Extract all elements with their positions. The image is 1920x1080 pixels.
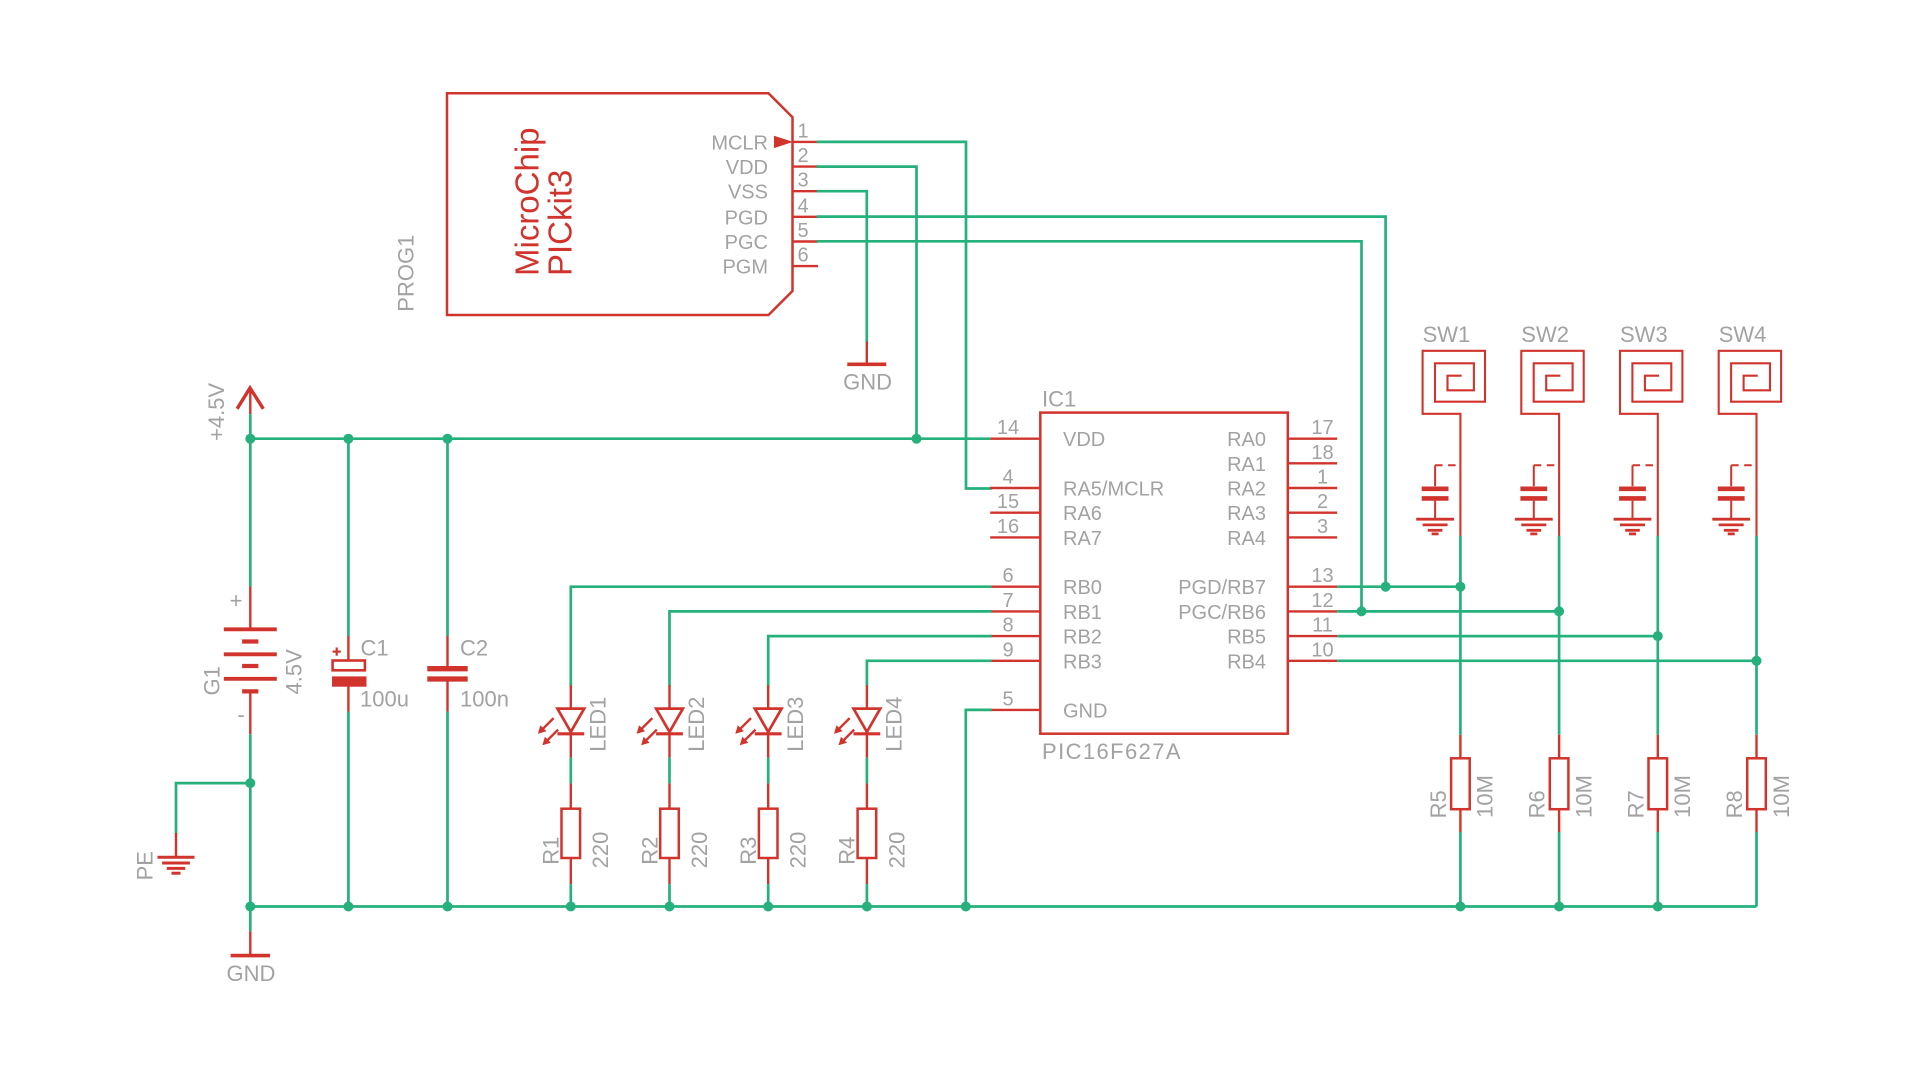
svg-text:8: 8: [1002, 615, 1013, 637]
wire R1 to bus: [569, 884, 572, 906]
resistor R3 220: [767, 783, 769, 808]
LED LED1: [570, 685, 572, 709]
capacitor C1 100u polarized: [347, 636, 349, 660]
pin 10 RB4 of IC1: [1288, 660, 1337, 662]
svg-text:R5: R5: [1426, 790, 1451, 818]
wire PGD net: PROG1 pin4 to RB7 column: [818, 217, 1386, 587]
IC U1 PIC16F627A body: [1040, 413, 1288, 734]
svg-text:RB3: RB3: [1063, 651, 1102, 673]
pin 17 RA0 of IC1: [1288, 438, 1337, 440]
connector PROG1 outline (PICkit3 box): [447, 93, 793, 315]
svg-text:220: 220: [687, 832, 712, 869]
svg-text:6: 6: [1002, 565, 1013, 587]
wire R6 to bus: [1558, 832, 1561, 907]
svg-text:13: 13: [1311, 565, 1333, 587]
svg-text:12: 12: [1311, 590, 1333, 612]
resistor R7 10M: [1657, 735, 1659, 759]
ground GND below PROG1: [866, 342, 868, 365]
svg-text:LED1: LED1: [586, 697, 611, 752]
svg-text:100u: 100u: [360, 687, 409, 712]
switch SW1 touch spiral: [1423, 351, 1485, 536]
pin 4 PGD of PROG1: [793, 216, 819, 218]
pin 5 PGC of PROG1: [793, 240, 819, 242]
wire LED1 cathode to R1: [569, 758, 572, 784]
switch SW2 touch spiral: [1521, 351, 1583, 536]
wire R4 to bus: [866, 884, 869, 906]
sense capacitor of SW2: [1534, 464, 1559, 466]
pin 1 RA2 of IC1: [1288, 487, 1337, 489]
ground GND below battery: [249, 931, 251, 955]
resistor R1 220: [570, 783, 572, 808]
ground of SW4 sense capacitor: [1712, 518, 1750, 521]
junction +4.5V rail at battery column: [245, 434, 255, 444]
pin 16 RA7 of IC1: [990, 536, 1040, 538]
junction bus at R5: [1455, 902, 1465, 912]
junction bus at battery column: [245, 902, 255, 912]
svg-text:10M: 10M: [1670, 775, 1695, 818]
svg-text:R8: R8: [1722, 790, 1747, 818]
svg-text:RA3: RA3: [1227, 503, 1266, 525]
wire C1 top: [347, 439, 350, 636]
svg-text:100n: 100n: [460, 687, 509, 712]
svg-text:R2: R2: [637, 837, 662, 865]
junction SW3 column at IC row: [1653, 631, 1663, 641]
ground of SW2 sense capacitor: [1515, 518, 1553, 521]
pin 18 RA1 of IC1: [1288, 462, 1337, 464]
svg-text:220: 220: [588, 832, 613, 869]
emission arrows of LED2: [640, 718, 653, 731]
pin 14 VDD of IC1: [990, 438, 1040, 440]
resistor R6 10M: [1558, 735, 1560, 759]
junction PGD at pin13 row: [1381, 582, 1391, 592]
ground PE (earth): [175, 833, 177, 857]
wire RB3 from IC1 to LED4: [867, 661, 990, 686]
svg-text:RA5/MCLR: RA5/MCLR: [1063, 479, 1164, 501]
svg-text:LED3: LED3: [783, 697, 808, 752]
svg-text:10M: 10M: [1473, 775, 1498, 818]
emission arrows of LED3: [738, 718, 751, 731]
wire IC row to SW4 column: [1337, 659, 1756, 662]
svg-text:9: 9: [1002, 639, 1013, 661]
svg-text:SW4: SW4: [1719, 322, 1767, 347]
pin 12 PGC/RB6 of IC1: [1288, 610, 1337, 612]
svg-text:17: 17: [1311, 417, 1333, 439]
wire C1 bottom to bus: [347, 712, 350, 907]
sense capacitor of SW3: [1633, 464, 1658, 466]
wire PE branch: [176, 783, 250, 833]
wire SW2 to row and resistor: [1558, 536, 1561, 735]
junction +4.5V rail at C2: [443, 434, 453, 444]
svg-text:R6: R6: [1525, 790, 1550, 818]
svg-text:2: 2: [1317, 491, 1328, 513]
svg-text:PIC16F627A: PIC16F627A: [1042, 739, 1182, 764]
LED LED3: [767, 685, 769, 709]
svg-text:-: -: [237, 702, 244, 727]
junction PGC at pin12 row: [1357, 606, 1367, 616]
wire LED3 cathode to R3: [767, 758, 770, 784]
svg-text:RB5: RB5: [1227, 627, 1266, 649]
resistor R4 220: [866, 783, 868, 808]
svg-text:16: 16: [997, 516, 1019, 538]
svg-text:GND: GND: [227, 961, 276, 986]
svg-text:SW2: SW2: [1521, 322, 1569, 347]
junction SW4 column at IC row: [1752, 656, 1762, 666]
pin 4 RA5/MCLR of IC1: [990, 487, 1040, 489]
junction bus at R7: [1653, 902, 1663, 912]
svg-text:RA0: RA0: [1227, 429, 1266, 451]
svg-text:PE: PE: [132, 851, 157, 880]
svg-text:5: 5: [798, 220, 809, 242]
svg-text:PGC/RB6: PGC/RB6: [1178, 602, 1266, 624]
wire LED2 cathode to R2: [668, 758, 671, 784]
svg-text:C2: C2: [460, 636, 488, 661]
pin 6 PGM of PROG1: [793, 265, 819, 267]
wire RB2 from IC1 to LED3: [768, 636, 990, 685]
svg-text:RA6: RA6: [1063, 503, 1102, 525]
svg-text:3: 3: [1317, 516, 1328, 538]
pin 7 RB1 of IC1: [990, 610, 1040, 612]
svg-text:+: +: [230, 588, 243, 613]
wire SW3 to row and resistor: [1656, 536, 1659, 735]
svg-text:PICkit3: PICkit3: [541, 170, 578, 276]
svg-text:6: 6: [798, 245, 809, 267]
svg-text:G1: G1: [200, 666, 225, 695]
svg-text:4: 4: [798, 195, 809, 217]
junction +4.5V rail at C1: [343, 434, 353, 444]
switch SW3 touch spiral: [1620, 351, 1682, 536]
svg-text:RA4: RA4: [1227, 528, 1266, 550]
wire IC1 GND pin5 to bus: [966, 710, 990, 907]
svg-text:IC1: IC1: [1042, 386, 1076, 411]
svg-text:10M: 10M: [1769, 775, 1794, 818]
svg-text:11: 11: [1312, 615, 1333, 637]
svg-text:18: 18: [1311, 442, 1333, 464]
wire RB0 from IC1 to LED1: [571, 587, 990, 686]
svg-text:1: 1: [798, 120, 809, 142]
junction on +4.5V rail at VDD drop: [912, 434, 922, 444]
battery G1: [249, 587, 251, 630]
junction bus at R1: [566, 902, 576, 912]
svg-text:RB0: RB0: [1063, 577, 1102, 599]
supply +4.5V arrow symbol: [237, 388, 263, 409]
LED LED2: [668, 685, 670, 709]
junction bus at IC GND column: [961, 902, 971, 912]
wire battery top: rail down to G1 plus terminal: [249, 439, 252, 587]
svg-text:GND: GND: [1063, 700, 1107, 722]
svg-text:LED4: LED4: [882, 697, 907, 752]
pin 2 RA3 of IC1: [1288, 512, 1337, 514]
wire R3 to bus: [767, 884, 770, 906]
wire R7 to bus: [1656, 832, 1659, 907]
svg-text:RA7: RA7: [1063, 528, 1102, 550]
svg-text:C1: C1: [361, 636, 389, 661]
switch SW4 touch spiral: [1719, 351, 1781, 536]
svg-text:15: 15: [997, 491, 1019, 513]
resistor R2 220: [668, 783, 670, 808]
wire PGC net: PROG1 pin5 to RB6 column: [818, 241, 1362, 611]
svg-text:VDD: VDD: [726, 157, 768, 179]
wire SW4 to row and resistor: [1755, 536, 1758, 735]
svg-text:2: 2: [798, 145, 809, 167]
junction SW1 column at IC row: [1455, 582, 1465, 592]
LED LED4: [866, 685, 868, 709]
svg-text:+4.5V: +4.5V: [204, 383, 229, 441]
wire C2 bottom to bus: [446, 712, 449, 907]
svg-text:7: 7: [1002, 590, 1013, 612]
svg-text:10: 10: [1311, 639, 1333, 661]
pin 11 RB5 of IC1: [1288, 635, 1337, 637]
junction bus at R3: [763, 902, 773, 912]
svg-text:4: 4: [1002, 467, 1013, 489]
junction bus at R6: [1554, 902, 1564, 912]
pin 5 GND of IC1: [990, 709, 1040, 711]
svg-text:PROG1: PROG1: [393, 235, 418, 312]
ground of SW3 sense capacitor: [1614, 518, 1652, 521]
svg-text:3: 3: [798, 170, 809, 192]
pin 3 RA4 of IC1: [1288, 536, 1337, 538]
wire ground bus horizontal: [250, 905, 1756, 908]
MCLR pin direction arrow: [774, 136, 793, 148]
wire RB1 from IC1 to LED2: [670, 611, 991, 685]
svg-text:VSS: VSS: [728, 182, 768, 204]
pin 6 RB0 of IC1: [990, 586, 1040, 588]
wire VDD net: PROG1 pin2 down to +4.5V rail: [818, 167, 917, 439]
sense capacitor of SW1: [1435, 464, 1460, 466]
svg-text:220: 220: [884, 832, 909, 869]
svg-text:GND: GND: [843, 370, 892, 395]
pin 15 RA6 of IC1: [990, 512, 1040, 514]
wire MCLR net: PROG1 pin1 to IC1 RA5/MCLR: [818, 142, 990, 489]
svg-text:RA1: RA1: [1227, 454, 1266, 476]
wire battery minus down to bus: [249, 734, 252, 906]
pin 3 VSS of PROG1: [793, 190, 819, 192]
svg-text:LED2: LED2: [684, 697, 709, 752]
junction bus at R2: [665, 902, 675, 912]
svg-text:220: 220: [786, 832, 811, 869]
wire IC row to SW1 column: [1337, 585, 1460, 588]
svg-text:VDD: VDD: [1063, 429, 1105, 451]
sense capacitor of SW4: [1731, 464, 1756, 466]
svg-text:10M: 10M: [1571, 775, 1596, 818]
svg-text:RB4: RB4: [1227, 651, 1266, 673]
pin 13 PGD/RB7 of IC1: [1288, 586, 1337, 588]
wire VSS net: PROG1 pin3 to GND symbol: [818, 191, 867, 342]
emission arrows of LED1: [541, 718, 554, 731]
wire R2 to bus: [668, 884, 671, 906]
svg-text:R1: R1: [539, 837, 564, 865]
svg-text:MicroChip: MicroChip: [509, 127, 546, 276]
emission arrows of LED4: [837, 718, 850, 731]
svg-text:PGD/RB7: PGD/RB7: [1178, 577, 1266, 599]
wire GND stub below bus: [249, 907, 252, 932]
pin 9 RB3 of IC1: [990, 660, 1040, 662]
svg-text:RB1: RB1: [1063, 602, 1102, 624]
pin 8 RB2 of IC1: [990, 635, 1040, 637]
svg-text:1: 1: [1317, 467, 1328, 489]
pin 1 MCLR of PROG1: [793, 141, 819, 143]
wire +4.5V rail horizontal to IC1 VDD: [250, 437, 990, 440]
junction battery to PE branch: [245, 778, 255, 788]
resistor R5 10M: [1459, 735, 1461, 759]
svg-text:4.5V: 4.5V: [281, 649, 306, 695]
svg-text:5: 5: [1002, 688, 1013, 710]
wire IC row to SW2 column: [1337, 610, 1559, 613]
svg-text:SW1: SW1: [1423, 322, 1471, 347]
wire +4.5V vertical stub to rail: [249, 414, 252, 439]
svg-text:RB2: RB2: [1063, 627, 1102, 649]
svg-text:SW3: SW3: [1620, 322, 1668, 347]
svg-text:PGM: PGM: [722, 257, 768, 279]
junction bus at R4: [862, 902, 872, 912]
pin 2 VDD of PROG1: [793, 165, 819, 167]
plus mark of C1: [333, 650, 341, 652]
junction SW2 column at IC row: [1554, 606, 1564, 616]
junction bus at C1: [343, 902, 353, 912]
ground of SW1 sense capacitor: [1416, 518, 1454, 521]
svg-text:R4: R4: [835, 837, 860, 865]
svg-text:R3: R3: [736, 837, 761, 865]
wire R5 to bus: [1459, 832, 1462, 907]
wire LED4 cathode to R4: [866, 758, 869, 784]
wire R8 to bus: [1755, 832, 1758, 907]
svg-text:PGC: PGC: [725, 232, 768, 254]
svg-text:MCLR: MCLR: [711, 132, 768, 154]
wire IC row to SW3 column: [1337, 635, 1658, 638]
wire C2 top: [446, 439, 449, 636]
junction bus at C2: [443, 902, 453, 912]
svg-text:PGD: PGD: [725, 207, 768, 229]
svg-text:R7: R7: [1623, 790, 1648, 818]
capacitor C2 100n: [446, 636, 448, 666]
svg-text:14: 14: [997, 417, 1019, 439]
resistor R8 10M: [1755, 735, 1757, 759]
wire SW1 to row and resistor: [1459, 536, 1462, 735]
svg-text:RA2: RA2: [1227, 479, 1266, 501]
